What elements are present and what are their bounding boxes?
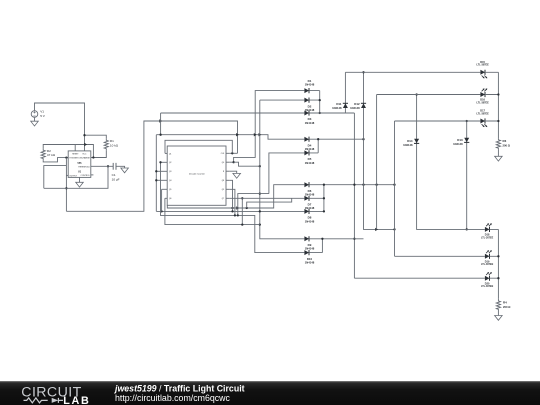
- svg-text:1N4148: 1N4148: [453, 142, 463, 146]
- svg-text:1N4148: 1N4148: [305, 147, 315, 151]
- svg-text:1N4148: 1N4148: [305, 219, 315, 223]
- voltage source V1: [31, 110, 46, 118]
- wire Q5 riser: [161, 189, 163, 211]
- wire D4 row: [156, 133, 304, 139]
- wire D9-D10 output bus: [309, 238, 363, 253]
- wire D4-D5 output bus: [309, 138, 364, 153]
- LED D20: [481, 272, 494, 288]
- wire D1-D3 output bus: [309, 91, 321, 115]
- svg-text:THRESHOLD: THRESHOLD: [78, 166, 90, 168]
- wire D17 row: [395, 120, 481, 122]
- wire D3 output to node red: [309, 112, 354, 114]
- wire R4 to ground: [497, 312, 499, 316]
- svg-text:D2: D2: [308, 104, 312, 108]
- svg-text:1N4148: 1N4148: [350, 106, 360, 110]
- diode D1: [304, 79, 314, 93]
- ground (C1): [121, 168, 129, 173]
- svg-text:D10: D10: [307, 257, 313, 261]
- svg-text:1N4148: 1N4148: [332, 106, 342, 110]
- wire jog row to D7: [247, 198, 292, 208]
- svg-text:D12: D12: [354, 102, 360, 106]
- svg-text:D13: D13: [457, 138, 463, 142]
- svg-text:1N4148: 1N4148: [403, 143, 413, 147]
- wire R3 to ground: [497, 150, 499, 157]
- svg-text:http://circuitlab.com/cm6qcwc: http://circuitlab.com/cm6qcwc: [115, 393, 230, 403]
- wire threshold to C1: [91, 165, 113, 167]
- wire amber riser to D16 row: [376, 95, 378, 230]
- wire P5 riser: [229, 189, 236, 216]
- diode D2: [304, 98, 314, 113]
- wire under-chip row to D6: [167, 185, 304, 210]
- svg-text:Q4: Q4: [169, 180, 171, 182]
- counter right pin stubs: [221, 153, 230, 200]
- svg-text:Q8: Q8: [222, 180, 224, 182]
- svg-text:1N4148: 1N4148: [305, 121, 315, 125]
- svg-text:LTL-307EE: LTL-307EE: [481, 236, 494, 239]
- wire P6 row to D7: [229, 197, 304, 199]
- svg-text:D4: D4: [308, 143, 312, 147]
- diode D7: [304, 196, 314, 211]
- svg-text:10 kΩ: 10 kΩ: [110, 143, 119, 147]
- svg-text:LAB: LAB: [63, 395, 90, 405]
- wire riser Q3/Q4 to D8 row: [155, 135, 304, 213]
- diode D10: [304, 250, 314, 265]
- svg-text:Decade Counter: Decade Counter: [189, 172, 205, 175]
- wire long bus to D9: [259, 100, 305, 239]
- pin CONTROL stub (555): [91, 174, 94, 176]
- svg-text:200 Ω: 200 Ω: [503, 144, 511, 148]
- svg-text:TRIGGER: TRIGGER: [69, 158, 78, 160]
- wire D6-D8 output bus: [309, 184, 395, 213]
- wire D5 feed riser: [269, 153, 305, 194]
- svg-text:CONTROL: CONTROL: [81, 175, 90, 177]
- svg-text:D7: D7: [308, 203, 312, 207]
- wire V1 positive to node VCC: [35, 103, 85, 151]
- svg-text:10 µF: 10 µF: [112, 177, 120, 181]
- diode D5: [304, 150, 314, 165]
- footer credits: [114, 383, 245, 403]
- diode D9: [304, 236, 314, 251]
- wire P4 riser: [229, 180, 233, 212]
- svg-text:LTL-307EE: LTL-307EE: [477, 64, 490, 67]
- diode D13: [453, 120, 469, 231]
- diode D4: [304, 137, 314, 152]
- wire R2 top to discharge node: [43, 143, 93, 158]
- wire R1 bottom to discharge pin: [91, 150, 107, 158]
- svg-text:D8: D8: [308, 216, 312, 220]
- svg-text:R3: R3: [503, 139, 507, 143]
- wire long riser to D17/D19: [394, 121, 396, 256]
- wire 555 output to counter CLK: [66, 119, 237, 211]
- svg-text:Q2: Q2: [169, 162, 171, 164]
- wire CLK stub: [229, 152, 237, 154]
- wire red bus vertical: [353, 113, 355, 278]
- pin RESET stub (555): [74, 145, 76, 151]
- wire Q0 jog to D1: [229, 91, 304, 164]
- svg-text:D9: D9: [308, 243, 312, 247]
- ground (R4): [495, 316, 503, 321]
- LED D15: [477, 61, 490, 79]
- resistor R2: [41, 149, 56, 161]
- svg-text:1N4148: 1N4148: [305, 108, 315, 112]
- svg-text:1N4148: 1N4148: [305, 82, 315, 86]
- svg-text:OUTPUT: OUTPUT: [69, 175, 78, 177]
- wire Q6 riser row: [165, 198, 260, 224]
- svg-text:1N4148: 1N4148: [305, 247, 315, 251]
- svg-text:D11: D11: [336, 102, 342, 106]
- svg-text:LTL-307EE: LTL-307EE: [477, 101, 490, 104]
- svg-text:1N4148: 1N4148: [305, 193, 315, 197]
- wire C1 to ground: [116, 166, 125, 168]
- svg-text:LTL-307EE: LTL-307EE: [481, 285, 494, 288]
- svg-text:47 kΩ: 47 kΩ: [47, 153, 56, 157]
- svg-text:R4: R4: [503, 300, 507, 304]
- wire R2 bottom to trigger node: [43, 158, 66, 162]
- diode D8: [304, 209, 314, 224]
- resistor R3: [496, 138, 510, 149]
- wire D20 row: [354, 277, 485, 279]
- svg-text:D14: D14: [407, 139, 413, 143]
- svg-text:Q6: Q6: [169, 198, 171, 200]
- wire green bus jog: [364, 139, 396, 231]
- svg-text:D5: D5: [308, 157, 312, 161]
- op-amp U1 555 timer body: [68, 151, 91, 178]
- svg-text:200 Ω: 200 Ω: [503, 305, 511, 309]
- capacitor C1: [112, 163, 120, 182]
- wire D15 row: [345, 71, 480, 73]
- resistor R4: [496, 299, 511, 312]
- diode D14: [403, 93, 485, 229]
- pin OUTPUT stub (555): [66, 174, 68, 176]
- counter left pin stubs Q1-Q6: [156, 153, 171, 200]
- svg-text:jwest5199 / Traffic Light Circ: jwest5199 / Traffic Light Circuit: [114, 383, 245, 393]
- svg-text:D6: D6: [308, 189, 312, 193]
- LED D18: [481, 223, 494, 239]
- wire D3 row: [161, 113, 305, 135]
- diode D12: [350, 71, 366, 139]
- wire bottom loop to C1 node: [44, 165, 109, 188]
- wire riser v242: [241, 197, 243, 226]
- svg-text:1N4148: 1N4148: [305, 161, 315, 165]
- wire Q2 riser to D10 row: [159, 161, 304, 252]
- wire D16 row: [377, 94, 481, 96]
- svg-text:555: 555: [78, 162, 83, 165]
- svg-text:VCC: VCC: [82, 154, 87, 156]
- decade counter U2 body: [167, 146, 226, 205]
- svg-text:D1: D1: [308, 79, 312, 83]
- wire trigger feedback vertical: [65, 158, 67, 212]
- diode D3: [304, 110, 314, 125]
- ground (555 GND pin): [76, 177, 84, 187]
- ground (counter reset): [233, 173, 241, 178]
- LED D19: [481, 250, 494, 266]
- wire reset pin to ground: [229, 171, 236, 173]
- wire upper LED cathode bus: [485, 72, 500, 138]
- svg-text:1N4148: 1N4148: [305, 206, 315, 210]
- wire D2 row: [260, 99, 305, 101]
- LED D17: [477, 110, 490, 128]
- resistor R1: [104, 139, 119, 150]
- pin TRIGGER stub (555): [65, 156, 68, 158]
- wire staircase to D5: [237, 194, 269, 217]
- wire D19 row: [395, 255, 485, 257]
- wire lower LED cathode bus: [490, 229, 500, 298]
- svg-text:Q3: Q3: [169, 171, 171, 173]
- svg-text:1N4148: 1N4148: [305, 261, 315, 265]
- svg-text:Q1: Q1: [169, 153, 171, 155]
- diode D6: [304, 182, 314, 197]
- ground (R3): [495, 156, 503, 161]
- svg-text:Q9: Q9: [222, 189, 224, 191]
- diode D11: [332, 72, 348, 113]
- svg-text:LTL-307EE: LTL-307EE: [481, 263, 494, 266]
- ground (below V1): [31, 118, 39, 126]
- wire Q1 loop to CLK: [165, 140, 232, 153]
- svg-text:LTL-307EE: LTL-307EE: [477, 112, 490, 115]
- svg-text:RESET: RESET: [72, 154, 79, 156]
- CircuitLab logo: [21, 384, 90, 405]
- wire VCC branch to R1 top: [83, 134, 106, 139]
- svg-text:Q0: Q0: [222, 162, 224, 164]
- svg-text:Q5: Q5: [169, 189, 171, 191]
- wire left loop: [44, 166, 67, 189]
- svg-text:Q7: Q7: [222, 198, 224, 200]
- svg-text:DISCHARGE: DISCHARGE: [79, 157, 91, 160]
- wire branch jog to D2: [234, 162, 261, 167]
- svg-text:D3: D3: [308, 117, 312, 121]
- LED D16: [477, 88, 490, 104]
